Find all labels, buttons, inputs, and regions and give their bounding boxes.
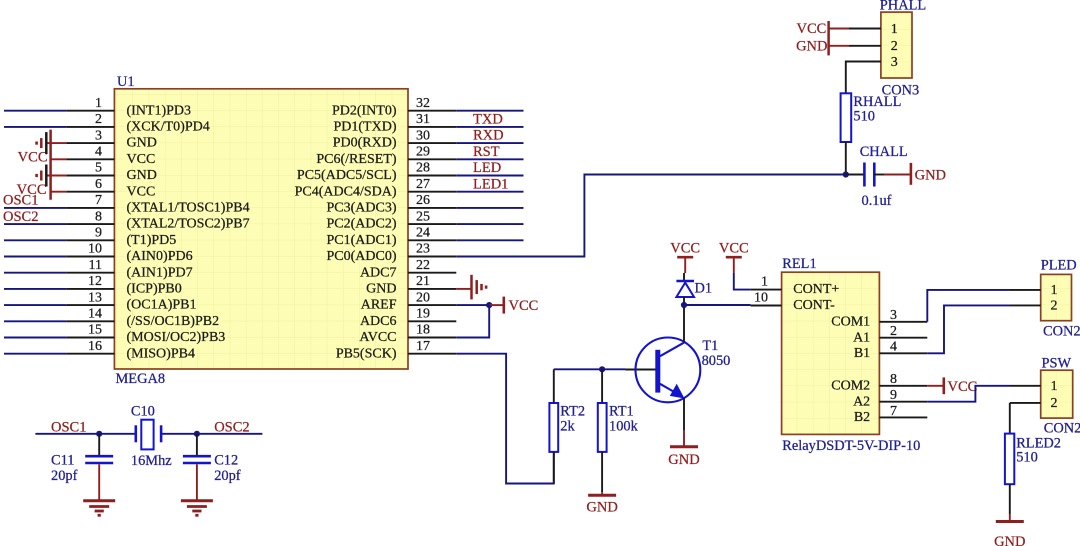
svg-text:29: 29 xyxy=(416,145,430,160)
svg-text:VCC: VCC xyxy=(17,182,47,198)
PHALL pin 1 xyxy=(849,22,898,37)
wire net LED1 from U1 pin 27 xyxy=(456,191,523,193)
svg-text:VCC: VCC xyxy=(509,298,539,314)
capacitor C11 20pf xyxy=(51,434,113,500)
svg-text:(MOSI/OC2)PB3: (MOSI/OC2)PB3 xyxy=(127,330,226,345)
svg-text:(INT1)PD3: (INT1)PD3 xyxy=(127,103,192,118)
REL1 pin 8 COM2 xyxy=(831,372,927,393)
IC U1 MEGA8 body xyxy=(114,89,408,369)
svg-text:PB5(SCK): PB5(SCK) xyxy=(336,346,397,361)
U1 pin 26 PC3(ADC3) xyxy=(326,193,456,215)
node D1/collector/CONT- junction xyxy=(681,302,687,308)
ground GND under RT1 xyxy=(586,492,617,515)
svg-text:GND: GND xyxy=(586,500,617,516)
svg-text:21: 21 xyxy=(416,274,430,289)
ground (earth) U1 pin 3 xyxy=(37,132,67,154)
part name RelayDSDT-5V-DIP-10 xyxy=(782,438,920,454)
designator PHALL xyxy=(880,0,926,14)
net label RST xyxy=(473,144,500,160)
svg-text:8: 8 xyxy=(890,372,897,387)
svg-text:25: 25 xyxy=(416,209,430,224)
wire to U1 pin 13 xyxy=(4,304,66,306)
svg-text:RT1: RT1 xyxy=(609,404,634,420)
svg-text:(OC1A)PB1: (OC1A)PB1 xyxy=(127,298,197,313)
PSW pin 1 xyxy=(1010,379,1058,394)
connector PSW body xyxy=(1041,370,1073,418)
power port VCC stem U1 pin 6 xyxy=(17,182,67,198)
svg-text:1: 1 xyxy=(1051,379,1058,394)
net label LED xyxy=(473,160,501,176)
U1 pin 18 AVCC xyxy=(359,323,456,345)
PHALL pin 3 xyxy=(849,55,898,70)
svg-text:PC1(ADC1): PC1(ADC1) xyxy=(326,233,396,248)
svg-text:31: 31 xyxy=(416,112,430,127)
node OSC2 junction xyxy=(194,431,200,437)
wire U1 pin 18 AVCC to VCC node xyxy=(456,305,489,337)
svg-text:B2: B2 xyxy=(854,410,870,425)
svg-text:2: 2 xyxy=(890,324,897,339)
svg-text:TXD: TXD xyxy=(473,112,503,128)
U1 pin 15 (MOSI/OC2)PB3 xyxy=(66,323,225,345)
svg-text:ADC6: ADC6 xyxy=(360,314,397,329)
REL1 pin 4 B1 xyxy=(854,340,927,361)
designator REL1 xyxy=(782,256,816,272)
resistor RLED2 510 xyxy=(1005,403,1061,514)
svg-text:15: 15 xyxy=(88,323,102,338)
svg-text:22: 22 xyxy=(416,258,430,273)
svg-text:PD2(INT0): PD2(INT0) xyxy=(332,103,397,118)
wire to U1 pin 1 xyxy=(4,110,66,112)
resistor RT2 2k xyxy=(549,369,585,483)
wire from U1 pin 24 xyxy=(456,239,523,241)
svg-text:A2: A2 xyxy=(853,394,870,409)
svg-text:9: 9 xyxy=(890,388,897,403)
wire net RXD from U1 pin 30 xyxy=(456,142,523,144)
svg-text:510: 510 xyxy=(1016,450,1038,466)
svg-text:LED: LED xyxy=(473,160,501,176)
svg-text:REL1: REL1 xyxy=(782,256,816,272)
ground (earth) under C11 xyxy=(83,501,115,516)
power port VCC at AREF xyxy=(489,297,538,315)
designator PLED xyxy=(1041,258,1077,274)
svg-text:14: 14 xyxy=(88,307,102,322)
svg-text:(MISO)PB4: (MISO)PB4 xyxy=(127,346,195,361)
power port VCC bar (U1 pins 4,6) xyxy=(49,130,52,200)
U1 pin 3 GND xyxy=(66,128,156,150)
svg-text:2: 2 xyxy=(95,112,102,127)
svg-text:20pf: 20pf xyxy=(51,468,78,484)
svg-text:4: 4 xyxy=(890,340,897,355)
wire to U1 pin 12 xyxy=(4,288,66,290)
svg-text:13: 13 xyxy=(88,290,102,305)
capacitor CHALL 0.1uf xyxy=(846,144,908,209)
svg-text:PC0(ADC0): PC0(ADC0) xyxy=(326,249,396,264)
svg-text:AREF: AREF xyxy=(361,298,397,313)
svg-text:6: 6 xyxy=(95,177,102,192)
node AREF/AVCC junction xyxy=(486,302,492,308)
REL1 pin 10 CONT- xyxy=(751,290,836,313)
U1 pin 19 ADC6 xyxy=(360,307,456,329)
transistor T1 8050 xyxy=(626,338,731,403)
svg-text:7: 7 xyxy=(95,193,102,208)
svg-text:C11: C11 xyxy=(51,452,74,468)
node base junction xyxy=(599,366,605,372)
U1 pin 5 GND xyxy=(66,161,156,183)
wire net OSC1 to U1 pin 7 xyxy=(4,207,66,209)
wire from U1 pin 32 xyxy=(456,110,523,112)
svg-text:30: 30 xyxy=(416,128,430,143)
U1 pin 24 PC1(ADC1) xyxy=(326,226,456,248)
svg-text:PC3(ADC3): PC3(ADC3) xyxy=(326,201,396,216)
svg-text:10: 10 xyxy=(754,290,768,305)
U1 pin 20 AREF xyxy=(361,290,457,312)
wire from U1 pin 26 xyxy=(456,207,523,209)
ground (earth) under C12 xyxy=(181,501,213,516)
svg-text:PC4(ADC4/SDA): PC4(ADC4/SDA) xyxy=(295,184,397,199)
U1 pin 4 VCC xyxy=(66,145,155,167)
svg-text:T1: T1 xyxy=(702,338,718,354)
U1 pin 7 (XTAL1/TOSC1)PB4 xyxy=(66,193,249,215)
power port bar VCC/GND (PHALL) xyxy=(827,21,830,55)
svg-text:4: 4 xyxy=(95,145,102,160)
svg-text:3: 3 xyxy=(891,55,898,70)
U1 pin 10 (AIN0)PD6 xyxy=(66,242,192,264)
svg-text:17: 17 xyxy=(416,339,430,354)
U1 pin 8 (XTAL2/TOSC2)PB7 xyxy=(66,209,249,231)
svg-text:23: 23 xyxy=(416,242,430,257)
wire net OSC2 (crystal right) xyxy=(161,433,262,435)
svg-text:PC6(/RESET): PC6(/RESET) xyxy=(316,152,396,167)
net label TXD xyxy=(473,112,503,128)
wire U1 pin 20 AREF to VCC node xyxy=(456,304,489,306)
svg-text:8: 8 xyxy=(95,209,102,224)
net label OSC2 (crystal) xyxy=(214,419,249,435)
svg-text:AVCC: AVCC xyxy=(359,330,396,345)
U1 pin 14 (/SS/OC1B)PB2 xyxy=(66,307,219,329)
U1 pin 28 PC5(ADC5/SCL) xyxy=(297,161,456,183)
svg-text:COM2: COM2 xyxy=(831,378,870,393)
svg-text:PLED: PLED xyxy=(1041,258,1077,274)
resistor RHALL 510 xyxy=(841,93,902,174)
U1 pin 21 GND xyxy=(366,274,456,296)
svg-text:20: 20 xyxy=(416,290,430,305)
svg-text:2k: 2k xyxy=(560,418,575,434)
ground GND right of CHALL xyxy=(884,163,946,185)
svg-text:9: 9 xyxy=(95,226,102,241)
svg-text:C10: C10 xyxy=(131,404,155,420)
svg-text:RXD: RXD xyxy=(473,128,504,144)
wire to U1 pin 11 xyxy=(4,272,66,274)
part name CON2 (PSW) xyxy=(1044,421,1080,437)
wire net RST from U1 pin 29 xyxy=(456,158,523,160)
svg-text:RelayDSDT-5V-DIP-10: RelayDSDT-5V-DIP-10 xyxy=(782,438,920,454)
power port VCC to PHALL pin 1 xyxy=(796,21,849,37)
svg-text:D1: D1 xyxy=(695,281,713,297)
svg-text:28: 28 xyxy=(416,161,430,176)
net label LED1 xyxy=(473,176,508,192)
wire to U1 pin 10 xyxy=(4,256,66,258)
svg-text:(XTAL1/TOSC1)PB4: (XTAL1/TOSC1)PB4 xyxy=(127,201,250,216)
relay REL1 body xyxy=(782,272,880,434)
svg-text:RST: RST xyxy=(473,144,500,160)
svg-text:B1: B1 xyxy=(854,346,870,361)
designator PSW xyxy=(1042,355,1072,371)
wire to U1 pin 16 xyxy=(4,353,66,355)
PHALL pin 2 xyxy=(849,39,898,54)
svg-text:1: 1 xyxy=(95,96,102,111)
svg-text:12: 12 xyxy=(88,274,102,289)
power port VCC at REL1 COM2 xyxy=(927,377,977,395)
svg-text:COM1: COM1 xyxy=(831,314,870,329)
svg-text:OSC2: OSC2 xyxy=(3,209,38,225)
svg-text:PD0(RXD): PD0(RXD) xyxy=(333,136,397,151)
svg-text:3: 3 xyxy=(890,308,897,323)
designator U1 xyxy=(117,74,135,90)
svg-text:2: 2 xyxy=(891,39,898,54)
net label OSC1 (crystal) xyxy=(51,419,86,435)
svg-text:CON2: CON2 xyxy=(1044,421,1080,437)
U1 pin 1 (INT1)PD3 xyxy=(66,96,191,118)
svg-text:(T1)PD5: (T1)PD5 xyxy=(127,233,177,248)
U1 pin 11 (AIN1)PD7 xyxy=(66,258,192,280)
svg-text:2: 2 xyxy=(1051,396,1058,411)
wire VCC to REL1 pin 1 CONT+ xyxy=(734,273,751,290)
svg-text:C12: C12 xyxy=(214,452,238,468)
svg-text:CHALL: CHALL xyxy=(860,144,908,160)
svg-text:8050: 8050 xyxy=(702,353,731,369)
svg-text:GND: GND xyxy=(994,534,1025,546)
net label RXD xyxy=(473,128,504,144)
U1 pin 31 PD1(TXD) xyxy=(334,112,457,134)
svg-text:VCC: VCC xyxy=(796,21,826,37)
svg-text:(XTAL2/TOSC2)PB7: (XTAL2/TOSC2)PB7 xyxy=(127,217,250,232)
wire to U1 pin 2 xyxy=(4,126,66,128)
net label OSC2 xyxy=(3,209,38,225)
svg-text:26: 26 xyxy=(416,193,430,208)
ground GND under T1 emitter xyxy=(668,430,699,468)
node CHALL junction xyxy=(843,171,849,177)
svg-text:PHALL: PHALL xyxy=(880,0,926,14)
svg-text:(ICP)PB0: (ICP)PB0 xyxy=(127,282,182,297)
wire collector T1 to D1 node xyxy=(683,305,685,342)
svg-text:1: 1 xyxy=(761,274,768,289)
resistor RT1 100k xyxy=(598,369,639,492)
svg-text:PSW: PSW xyxy=(1042,355,1072,371)
U1 pin 16 (MISO)PB4 xyxy=(66,339,195,361)
svg-text:VCC: VCC xyxy=(127,152,156,167)
wire to U1 pin 14 xyxy=(4,320,66,322)
svg-text:19: 19 xyxy=(416,307,430,322)
svg-text:2: 2 xyxy=(1051,299,1058,314)
wire from U1 pin 25 xyxy=(456,223,523,225)
wire net LED from U1 pin 28 xyxy=(456,175,523,177)
REL1 pin 3 COM1 xyxy=(831,308,927,329)
svg-text:A1: A1 xyxy=(853,330,870,345)
svg-text:CON2: CON2 xyxy=(1043,324,1080,340)
svg-text:3: 3 xyxy=(95,128,102,143)
wire net OSC1 (crystal left) xyxy=(35,433,135,435)
wire from U1 pin 23 PC0 to CHALL node xyxy=(456,175,846,257)
net label OSC1 xyxy=(3,193,38,209)
wire to U1 pin 15 xyxy=(4,337,66,339)
U1 pin 12 (ICP)PB0 xyxy=(66,274,181,296)
wire base node to resistors xyxy=(554,368,626,370)
svg-text:27: 27 xyxy=(416,177,430,192)
svg-text:VCC: VCC xyxy=(127,184,156,199)
svg-text:20pf: 20pf xyxy=(214,468,241,484)
svg-text:GND: GND xyxy=(366,282,396,297)
svg-text:GND: GND xyxy=(127,136,157,151)
PLED pin 2 xyxy=(1010,299,1058,314)
U1 pin 23 PC0(ADC0) xyxy=(326,242,456,264)
ground GND under RLED2 xyxy=(994,514,1025,546)
connector PLED body xyxy=(1041,274,1072,320)
part name MEGA8 xyxy=(116,371,166,387)
U1 pin 30 PD0(RXD) xyxy=(333,128,457,150)
svg-text:CONT+: CONT+ xyxy=(793,282,839,297)
U1 pin 13 (OC1A)PB1 xyxy=(66,290,196,312)
wire to U1 pin 9 xyxy=(4,239,66,241)
svg-text:16Mhz: 16Mhz xyxy=(131,453,172,469)
U1 pin 6 VCC xyxy=(66,177,155,199)
diode D1 xyxy=(676,273,712,305)
svg-text:(/SS/OC1B)PB2: (/SS/OC1B)PB2 xyxy=(127,314,220,329)
U1 pin 17 PB5(SCK) xyxy=(336,339,456,361)
wire REL1 COM1 to PLED pin 1 xyxy=(927,290,1010,322)
svg-text:(AIN1)PD7: (AIN1)PD7 xyxy=(127,265,193,280)
svg-text:GND: GND xyxy=(668,452,699,468)
REL1 pin 2 A1 xyxy=(853,324,927,345)
svg-text:CONT-: CONT- xyxy=(793,298,835,313)
REL1 pin 9 A2 xyxy=(853,388,927,409)
svg-text:1: 1 xyxy=(1051,283,1058,298)
svg-text:510: 510 xyxy=(853,109,875,125)
svg-text:GND: GND xyxy=(127,168,157,183)
wire net TXD from U1 pin 31 xyxy=(456,126,523,128)
svg-text:PC5(ADC5/SCL): PC5(ADC5/SCL) xyxy=(297,168,397,183)
svg-text:U1: U1 xyxy=(117,74,135,90)
ground (earth) U1 pin 21 xyxy=(456,275,486,300)
svg-text:MEGA8: MEGA8 xyxy=(116,371,166,387)
U1 pin 22 ADC7 xyxy=(360,258,456,280)
U1 pin 25 PC2(ADC2) xyxy=(326,209,456,231)
svg-text:OSC2: OSC2 xyxy=(214,419,249,435)
svg-text:(XCK/T0)PD4: (XCK/T0)PD4 xyxy=(127,120,210,135)
capacitor C12 20pf xyxy=(183,434,241,500)
svg-text:7: 7 xyxy=(890,404,897,419)
svg-text:0.1uf: 0.1uf xyxy=(862,193,892,209)
svg-text:VCC: VCC xyxy=(948,379,978,395)
svg-text:OSC1: OSC1 xyxy=(51,419,86,435)
wire REL1 B1 to PLED pin 2 xyxy=(927,305,1010,353)
svg-text:(AIN0)PD6: (AIN0)PD6 xyxy=(127,249,193,264)
ground (earth) U1 pin 5 xyxy=(37,165,67,187)
node OSC1 junction xyxy=(96,431,102,437)
wire net OSC2 to U1 pin 8 xyxy=(4,223,66,225)
power port VCC above D1 xyxy=(670,241,700,273)
wire D1 node to REL1 pin 10 CONT- xyxy=(684,304,751,306)
svg-text:16: 16 xyxy=(88,339,102,354)
svg-text:1: 1 xyxy=(891,22,898,37)
svg-text:VCC: VCC xyxy=(719,241,749,257)
svg-text:5: 5 xyxy=(95,161,102,176)
U1 pin 29 PC6(/RESET) xyxy=(316,145,456,167)
svg-text:24: 24 xyxy=(416,226,430,241)
svg-text:GND: GND xyxy=(915,168,946,184)
connector PHALL body xyxy=(881,12,912,78)
U1 pin 9 (T1)PD5 xyxy=(66,226,176,248)
power port VCC above REL1 CONT+ xyxy=(719,241,749,273)
power port GND to PHALL pin 2 xyxy=(796,39,849,55)
svg-text:ADC7: ADC7 xyxy=(360,265,397,280)
part name CON3 xyxy=(882,82,920,98)
svg-text:VCC: VCC xyxy=(670,241,700,257)
svg-text:RHALL: RHALL xyxy=(853,94,901,110)
PSW pin 2 xyxy=(1010,396,1058,411)
svg-text:100k: 100k xyxy=(609,418,639,434)
svg-text:GND: GND xyxy=(796,39,827,55)
svg-text:VCC: VCC xyxy=(18,150,48,166)
part name CON2 (PLED) xyxy=(1043,324,1080,340)
wire PHALL pin 3 to RHALL xyxy=(846,62,849,94)
svg-text:RT2: RT2 xyxy=(560,404,585,420)
U1 pin 32 PD2(INT0) xyxy=(332,96,456,118)
wire U1 pin 17 PB5(SCK) to RT2 xyxy=(456,354,554,484)
svg-text:PD1(TXD): PD1(TXD) xyxy=(334,120,397,135)
wire emitter T1 to GND xyxy=(683,399,685,431)
power port VCC stem U1 pin 4 xyxy=(18,150,67,166)
U1 pin 2 (XCK/T0)PD4 xyxy=(66,112,209,134)
U1 pin 27 PC4(ADC4/SDA) xyxy=(295,177,457,199)
svg-text:18: 18 xyxy=(416,323,430,338)
svg-text:10: 10 xyxy=(88,242,102,257)
svg-text:32: 32 xyxy=(416,96,430,111)
REL1 pin 7 B2 xyxy=(854,404,927,425)
crystal C10 16Mhz xyxy=(131,404,172,469)
wire REL1 A2 to PSW pin 1 xyxy=(927,386,1010,402)
svg-text:LED1: LED1 xyxy=(473,176,508,192)
REL1 pin 1 CONT+ xyxy=(751,274,840,297)
PLED pin 1 xyxy=(1010,283,1058,298)
svg-text:PC2(ADC2): PC2(ADC2) xyxy=(326,217,396,232)
svg-text:11: 11 xyxy=(89,258,102,273)
